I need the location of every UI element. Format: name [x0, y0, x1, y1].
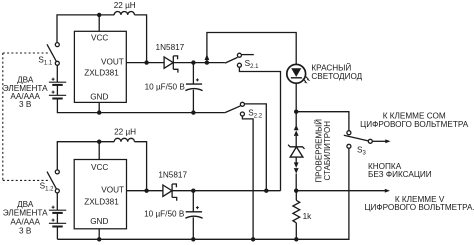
svg-text:VOUT: VOUT	[101, 57, 124, 66]
svg-text:VOUT: VOUT	[101, 185, 124, 194]
svg-text:ЦИФРОВОГО ВОЛЬТМЕТРА.: ЦИФРОВОГО ВОЛЬТМЕТРА.	[364, 203, 474, 212]
svg-text:S2.2: S2.2	[248, 108, 262, 119]
svg-text:22 µH: 22 µH	[114, 1, 136, 10]
wire VCC2 pin	[98, 142, 100, 160]
svg-text:БЕЗ ФИКСАЦИИ: БЕЗ ФИКСАЦИИ	[368, 170, 432, 179]
LED red indicator	[287, 64, 310, 83]
svg-text:ЦИФРОВОГО ВОЛЬТМЕТРА: ЦИФРОВОГО ВОЛЬТМЕТРА	[360, 120, 469, 129]
wire LED feed riser and top rail	[207, 33, 296, 65]
switch S3 momentary	[344, 131, 386, 149]
wire GND1 pin	[98, 102, 100, 112]
svg-text:1k: 1k	[303, 212, 313, 221]
wire GND2 pin	[98, 229, 100, 240]
wire inductor L2 to VOUT2 node	[135, 142, 147, 191]
wire battery GB2 to bottom bus	[56, 227, 58, 240]
wire S1.1 to battery GB1	[56, 65, 58, 82]
IC U2 ZXLD381	[74, 160, 126, 229]
switch S1.2	[47, 172, 56, 189]
svg-text:1N5817: 1N5817	[158, 171, 187, 180]
switch S2.1	[225, 53, 281, 191]
svg-text:VCC: VCC	[91, 34, 108, 43]
svg-text:1N5817: 1N5817	[156, 43, 185, 52]
svg-text:10 µF/50 В: 10 µF/50 В	[144, 209, 185, 218]
arrow up on LED riser	[205, 54, 210, 60]
switch S2.2	[225, 102, 266, 239]
diode VD1 1N5817	[164, 56, 178, 73]
capacitor C1 10uF/50V	[185, 63, 202, 113]
svg-text:S3: S3	[357, 146, 366, 157]
svg-text:КРАСНЫЙ: КРАСНЫЙ	[311, 62, 351, 73]
svg-text:S1.2: S1.2	[40, 182, 54, 193]
inductor L1 22uH	[114, 12, 134, 15]
zener under test (DUT)	[288, 112, 304, 191]
svg-text:ЭЛЕМЕНТА: ЭЛЕМЕНТА	[3, 208, 48, 217]
IC U1 ZXLD381	[74, 31, 126, 102]
svg-text:S2.1: S2.1	[245, 59, 259, 70]
battery GB2 (two cells)	[49, 206, 66, 227]
wire top rail converter 2	[57, 142, 114, 170]
svg-text:VCC: VCC	[91, 163, 108, 172]
wire V terminal line	[296, 190, 386, 192]
label zener DUT (rotated)	[315, 119, 332, 183]
svg-text:ZXLD381: ZXLD381	[84, 198, 119, 207]
switch S1.1	[47, 44, 56, 61]
svg-text:СТАБИЛИТРОН: СТАБИЛИТРОН	[323, 121, 332, 181]
resistor R1 1k	[293, 191, 300, 240]
wire top rail converter 1	[57, 15, 114, 43]
terminal arrow to COM of voltmeter	[385, 139, 390, 143]
svg-text:22 µH: 22 µH	[114, 127, 136, 136]
terminal arrow to V of voltmeter	[385, 189, 390, 193]
inductor L2 22uH	[114, 138, 134, 141]
wire COM node to S3	[296, 112, 349, 131]
wire bottom bus	[57, 148, 349, 239]
wire VCC1 pin	[98, 15, 100, 31]
wire inductor L1 to VOUT node	[135, 15, 147, 63]
diode VD2 1N5817	[163, 184, 177, 201]
wire S1.2 to battery GB2	[56, 193, 58, 210]
svg-text:СВЕТОДИОД: СВЕТОДИОД	[311, 72, 362, 81]
wire LED cathode to COM node	[295, 83, 297, 112]
svg-text:S1.1: S1.1	[38, 56, 52, 67]
svg-text:GND: GND	[90, 92, 108, 101]
battery GB1 (two cells)	[49, 78, 66, 99]
svg-text:10 µF/50 В: 10 µF/50 В	[145, 83, 186, 92]
wire VOUT1 line	[126, 62, 225, 64]
dashed gang link S1.1-S1.2	[3, 53, 50, 180]
wire VOUT2 line	[127, 190, 281, 192]
capacitor C2 10uF/50V	[185, 191, 202, 240]
svg-text:АА/ААА: АА/ААА	[10, 218, 40, 227]
svg-text:3 В: 3 В	[19, 100, 32, 109]
svg-text:3 В: 3 В	[19, 226, 32, 235]
wire battery GB1 to GND1 rail	[57, 99, 225, 113]
svg-text:ZXLD381: ZXLD381	[84, 69, 119, 78]
svg-text:GND: GND	[90, 217, 108, 226]
